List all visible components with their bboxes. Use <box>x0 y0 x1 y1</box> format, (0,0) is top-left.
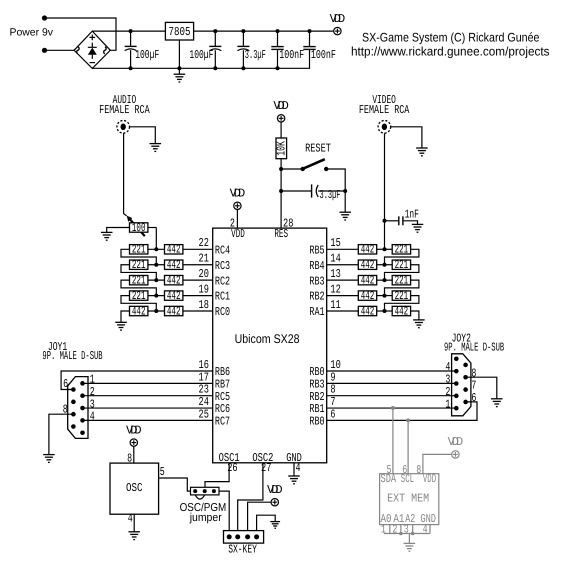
svg-text:4: 4 <box>90 410 95 424</box>
svg-text:6: 6 <box>63 377 68 391</box>
JOY1 pin dot right col 3 <box>80 406 85 411</box>
junction switch-gnd/C6 <box>343 189 347 193</box>
junction gray SDA on RB1 <box>391 406 395 410</box>
connector J5 SX-KEY body <box>224 531 264 544</box>
svg-text:EXT MEM: EXT MEM <box>387 491 429 505</box>
wire ladder chain RB2 right S-link <box>385 296 419 311</box>
wire JOY1 pin8 to ground <box>49 414 74 454</box>
ground under 7805 <box>174 74 186 82</box>
svg-text:RB0: RB0 <box>309 415 324 429</box>
junction gnd/C4 <box>276 66 280 70</box>
resistor RRB4b 221 <box>392 258 410 272</box>
wire U1 GND pin to ground <box>293 463 295 476</box>
ground audio pot <box>101 232 113 240</box>
jumper JP1 OSC/PGM body <box>191 487 220 495</box>
JOY2 pin dot right col 6 <box>463 363 468 368</box>
ground U1 <box>288 476 300 484</box>
wire C3 bottom <box>242 50 244 68</box>
wire U1 pin 13 to RB3 resistor <box>327 279 359 281</box>
ground EXT MEM <box>404 543 416 551</box>
svg-text:9P. MALE D-SUB: 9P. MALE D-SUB <box>444 340 504 354</box>
junction gray SCL on RB0 <box>406 418 410 422</box>
JOY2 pin dot left col 2 <box>454 369 459 374</box>
wire pot right to chain <box>148 227 156 229</box>
switch S1 left contact <box>301 167 305 171</box>
wire switch to ground <box>326 169 345 212</box>
resistor RRB3a 442 <box>358 273 376 287</box>
resistor RRB5b 221 <box>392 243 410 257</box>
SX-KEY pin3 <box>245 534 250 539</box>
svg-text:Power 9v: Power 9v <box>10 27 54 39</box>
svg-text:9P. MALE D-SUB: 9P. MALE D-SUB <box>42 349 102 363</box>
JOY2 pin dot right col 9 <box>463 400 468 405</box>
wire RC4 to U1 pin 22 <box>183 248 213 250</box>
wire audio RCA center down <box>124 133 127 216</box>
wire power- to bridge AC2 <box>47 49 75 51</box>
node RC4 chain junction <box>154 247 158 251</box>
ground JOY1 <box>43 455 55 463</box>
capacitor C6 3.3uF horizontal <box>312 184 319 197</box>
JOY1 pin dot left col 7 <box>71 400 76 405</box>
resistor RRC3a 221 <box>130 258 148 272</box>
wire OSC pin5 to jumper pin1 <box>159 478 191 491</box>
svg-text:SX-KEY: SX-KEY <box>228 542 257 556</box>
resistor RRC2b 442 <box>165 273 183 287</box>
VDD symbol EXT MEM <box>448 435 464 458</box>
wire RES node to C6 <box>281 190 312 192</box>
ground SX-KEY <box>270 522 280 529</box>
wire VDD to OSC pin8 <box>133 446 135 463</box>
JOY1 pin dot left col 9 <box>71 424 76 429</box>
wire node RC1 junction <box>148 295 165 297</box>
svg-text:4: 4 <box>423 523 428 537</box>
wire gray SCL from RB0 <box>407 420 409 473</box>
svg-text:10K: 10K <box>274 141 288 156</box>
wire gray VDD to EXTMEM pin8 <box>423 454 452 473</box>
JOY1 pin dot left col 8 <box>71 412 76 417</box>
wire U1 RB0 to JOY2 pin6 <box>327 402 477 421</box>
svg-text:RC2: RC2 <box>215 274 230 288</box>
svg-text:VDD: VDD <box>330 12 346 26</box>
wire EXTMEM bus to ground <box>408 534 410 544</box>
connector JOY1 D-SUB body <box>68 377 88 439</box>
node RC3 chain junction <box>154 263 158 267</box>
svg-text:RESET: RESET <box>305 141 331 155</box>
wire node RC2 junction <box>148 279 165 281</box>
wire U1 pin 12 to RB2 resistor <box>327 295 359 297</box>
resistor R1 10K vertical <box>274 138 288 159</box>
node RB4 chain junction <box>383 263 387 267</box>
junction 5V/C2 <box>213 29 217 33</box>
svg-text:SDA: SDA <box>381 472 397 486</box>
junction 5V/C4 <box>276 29 280 33</box>
wire gray SDA from RB1 <box>392 408 394 474</box>
wire node RC0 junction <box>148 310 165 312</box>
svg-text:19: 19 <box>199 282 209 296</box>
svg-text:RC0: RC0 <box>215 305 230 319</box>
svg-text:SX-Game System (C) Rickard Gun: SX-Game System (C) Rickard Gunée <box>362 30 540 44</box>
svg-text:20: 20 <box>199 267 209 281</box>
wire jumper pin3 to SXKEY pin1 <box>219 491 229 530</box>
potentiometer R2 100 <box>130 221 148 235</box>
ground reset switch <box>339 212 351 220</box>
wire node RC3 junction <box>148 264 165 266</box>
wire ladder chain RC3 left U-link <box>121 265 156 280</box>
resistor RRC3b 442 <box>165 258 183 272</box>
junction A1 bus <box>399 532 403 536</box>
wire JOY1 pin1 to U1 RB7 <box>83 382 213 384</box>
wire 5V rail 7805 output to VDD <box>194 30 334 32</box>
capacitor C2 100uF <box>209 46 221 50</box>
svg-text:1nF: 1nF <box>405 207 419 221</box>
junction gnd/C3 <box>241 66 245 70</box>
svg-text:4: 4 <box>296 461 301 475</box>
power input terminal + node <box>42 15 47 20</box>
potentiometer R2 wiper arrow line <box>130 219 145 236</box>
wire C6 to ground leg <box>318 190 345 192</box>
svg-text:FEMALE RCA: FEMALE RCA <box>99 103 150 117</box>
svg-text:3: 3 <box>404 523 409 537</box>
wire C5 top <box>309 31 311 46</box>
junction gnd/C2 <box>213 66 217 70</box>
wire video node to C7 <box>385 220 399 222</box>
wire RB6 row to JOY1 pin6 <box>61 371 213 390</box>
svg-text:Ubicom SX28: Ubicom SX28 <box>235 332 300 346</box>
svg-text:442: 442 <box>167 258 181 272</box>
svg-text:221: 221 <box>132 258 146 272</box>
resistor RRC4a 221 <box>130 243 148 257</box>
bridge B1 AC squiggle right <box>104 47 106 54</box>
jumper JP1 pin3 <box>212 489 216 493</box>
wire OSC2 to SXKEY pin2 <box>238 463 263 531</box>
svg-text:5: 5 <box>160 465 165 479</box>
wire U1 RB2 to JOY2 pin2 <box>327 395 457 397</box>
wire VDD to R10K <box>280 122 282 138</box>
node RB5 chain junction <box>383 247 387 251</box>
svg-text:RC4: RC4 <box>215 243 230 257</box>
potentiometer R2 wiper arrowhead <box>127 216 133 222</box>
junction video/C7 <box>383 219 387 223</box>
JOY1 pin dot left col 6 <box>71 387 76 392</box>
wire node RB3 junction <box>377 279 392 281</box>
resistor RRB5a 442 <box>358 243 376 257</box>
junction +9V/C1 <box>129 29 133 33</box>
svg-text:RA1: RA1 <box>309 305 324 319</box>
ground DAC ladder right <box>413 320 425 328</box>
wire RC0 to U1 pin 18 <box>183 310 213 312</box>
JOY2 pin dot left col 1 <box>454 357 459 362</box>
svg-text:442: 442 <box>167 289 181 303</box>
wire C4 top <box>277 31 279 46</box>
node RC2 chain junction <box>154 278 158 282</box>
wire U1 RB1 to JOY2 pin1 <box>327 407 457 409</box>
wire pin2 VDD <box>236 210 238 229</box>
wire ladder chain RC1 left U-link <box>121 296 156 311</box>
svg-text:2: 2 <box>392 523 397 537</box>
capacitor C5 100nF <box>303 47 315 50</box>
wire OSC1 to jumper pin2 <box>205 463 229 488</box>
junction gnd/7805 <box>177 66 181 70</box>
resistor RRB3b 221 <box>392 273 410 287</box>
bridge B1 internal diode <box>88 43 97 59</box>
wire ladder chain RC4 left U-link <box>121 249 156 264</box>
wire ladder chain bottom to ground <box>121 311 130 322</box>
node RC1 chain junction <box>154 294 158 298</box>
svg-text:12: 12 <box>330 282 340 296</box>
wire EXTMEM ground bus <box>384 533 430 535</box>
svg-text:6: 6 <box>330 407 335 421</box>
svg-text:221: 221 <box>132 289 146 303</box>
wire RC2 to U1 pin 20 <box>183 279 213 281</box>
switch S1 lever <box>303 159 325 168</box>
JOY2 pin dot left col 3 <box>454 381 459 386</box>
wire C2 bottom <box>214 50 216 68</box>
svg-text:14: 14 <box>330 252 340 266</box>
power input terminal - node <box>42 48 47 53</box>
svg-text:25: 25 <box>199 407 209 421</box>
VDD symbol SX-KEY <box>267 483 283 506</box>
wire EXTMEM pin3 stub <box>412 525 414 534</box>
connector J4 video female RCA <box>378 121 391 134</box>
svg-text:100µF: 100µF <box>135 48 159 62</box>
wire node RB4 junction <box>377 264 392 266</box>
svg-text:442: 442 <box>361 289 375 303</box>
capacitor C1 100uF <box>125 46 137 50</box>
svg-text:8: 8 <box>416 463 421 477</box>
wire U1 pin 11 to RA1 resistor <box>327 310 359 312</box>
wire right chain bottom to ground <box>411 311 419 319</box>
VDD symbol pin2 <box>230 187 246 210</box>
JOY1 pin dot right col 4 <box>80 418 85 423</box>
svg-text:6: 6 <box>471 391 476 405</box>
node RB2 chain junction <box>383 294 387 298</box>
JOY1 pin dot right col 2 <box>80 393 85 398</box>
op-chip U1 Ubicom SX28 body <box>213 228 327 463</box>
svg-text:VDD: VDD <box>126 423 142 437</box>
svg-text:3.3µF: 3.3µF <box>245 48 266 62</box>
wire node RB5 junction <box>377 248 392 250</box>
VDD symbol reset pullup <box>273 99 289 122</box>
junction 5V/C3 <box>241 29 245 33</box>
svg-text:11: 11 <box>330 298 340 312</box>
svg-text:3.3µF: 3.3µF <box>320 188 341 202</box>
svg-text:22: 22 <box>199 236 209 250</box>
svg-text:442: 442 <box>361 273 375 287</box>
SX-KEY pin1 <box>227 534 232 539</box>
wire RC1 to U1 pin 19 <box>183 295 213 297</box>
junction A2 bus <box>411 532 415 536</box>
svg-text:RC7: RC7 <box>215 415 230 429</box>
JOY2 pin dot right col 8 <box>463 387 468 392</box>
wire EXTMEM pin4 stub <box>429 525 431 534</box>
wire ground rail <box>92 49 309 68</box>
node RC0 chain junction <box>154 309 158 313</box>
svg-text:VDD: VDD <box>423 472 436 486</box>
wire JOY1 pin4 to U1 RC7 <box>83 419 213 421</box>
svg-text:442: 442 <box>361 258 375 272</box>
wire RES node to switch <box>281 168 303 170</box>
regulator U2 7805 <box>165 22 193 40</box>
svg-text:SCL: SCL <box>401 472 414 486</box>
svg-text:VDD: VDD <box>448 435 464 449</box>
resistor RRC4b 442 <box>165 243 183 257</box>
wire EXTMEM pin2 stub <box>400 525 402 534</box>
capacitor C3 3.3uF <box>237 46 249 50</box>
svg-text:RC1: RC1 <box>215 290 230 304</box>
svg-text:VDD: VDD <box>231 227 245 241</box>
svg-text:VDD: VDD <box>230 187 246 201</box>
wire C3 top <box>242 31 244 46</box>
svg-text:100: 100 <box>132 221 146 235</box>
wire JOY1 pin2 to U1 RC5 <box>83 395 213 397</box>
resistor RRB4a 442 <box>358 258 376 272</box>
node RB3 chain junction <box>383 278 387 282</box>
svg-text:221: 221 <box>132 273 146 287</box>
wire node RB2 junction <box>377 295 392 297</box>
wire ladder chain RB5 right S-link <box>385 249 419 264</box>
JOY2 pin dot right col 7 <box>463 375 468 380</box>
resistor RRB2b 221 <box>392 289 410 303</box>
connector JOY2 D-SUB body <box>452 354 471 416</box>
wire ladder chain RB4 right S-link <box>385 265 419 280</box>
svg-text:221: 221 <box>395 258 409 272</box>
VDD symbol power output <box>330 12 346 35</box>
svg-text:RES: RES <box>274 227 288 241</box>
wire C7 to ground <box>403 221 418 224</box>
JOY1 pin dot right col 1 <box>80 381 85 386</box>
jumper JP1 pin1 <box>193 489 197 493</box>
svg-text:100nF: 100nF <box>311 48 336 62</box>
wire EXTMEM pin1 stub <box>389 525 391 534</box>
resistor RRB2a 442 <box>358 289 376 303</box>
bridge B1 AC squiggle left <box>77 47 79 54</box>
junction RES/switch <box>279 167 283 171</box>
VDD symbol OSC <box>126 423 142 446</box>
ground video filter <box>412 224 424 232</box>
svg-text:1: 1 <box>381 523 386 537</box>
bridge B1 minus mark <box>90 62 96 64</box>
wire U1 RB3 to JOY2 pin3 <box>327 382 457 384</box>
wire JOY2 pin8 to ground <box>466 377 497 398</box>
svg-text:4: 4 <box>128 512 133 526</box>
wire C4 bottom <box>277 49 279 68</box>
memory U3 EXT MEM body <box>380 474 439 525</box>
JOY2 pin dot left col 5 <box>454 406 459 411</box>
wire SXKEY pin4 to ground <box>257 515 276 530</box>
svg-text:100nF: 100nF <box>279 48 304 62</box>
junction gnd/C1 <box>129 66 133 70</box>
svg-text:442: 442 <box>361 243 375 257</box>
jumper JP1 pin2 <box>203 489 207 493</box>
svg-text:7805: 7805 <box>169 25 191 39</box>
junction 5V/C5 <box>308 29 312 33</box>
wire chain top to pot <box>155 228 157 250</box>
svg-text:221: 221 <box>395 243 409 257</box>
wire R10K to RES node <box>280 159 282 228</box>
svg-text:15: 15 <box>330 236 340 250</box>
svg-text:RC3: RC3 <box>215 259 230 273</box>
resistor RRC0a 442 <box>130 304 148 318</box>
SX-KEY pin4 <box>254 534 259 539</box>
svg-text:442: 442 <box>167 304 181 318</box>
wire power+ to bridge AC1 <box>47 18 117 50</box>
resistor RRA1a 442 <box>358 304 376 318</box>
wire U1 pin 15 to RB5 resistor <box>327 248 359 250</box>
svg-text:RB2: RB2 <box>309 290 324 304</box>
svg-text:442: 442 <box>132 304 146 318</box>
svg-text:13: 13 <box>330 267 340 281</box>
resistor RRC0b 442 <box>165 304 183 318</box>
SX-KEY pin2 <box>235 534 240 539</box>
svg-text:442: 442 <box>395 304 409 318</box>
svg-text:221: 221 <box>132 243 146 257</box>
svg-text:OSC: OSC <box>126 481 143 495</box>
resistor RRC2a 221 <box>130 273 148 287</box>
ground JOY2 <box>491 399 503 407</box>
wire +9V rail bridge to 7805 input <box>92 30 165 32</box>
svg-text:FEMALE RCA: FEMALE RCA <box>359 103 410 117</box>
switch S1 right contact <box>324 167 328 171</box>
svg-text:RB4: RB4 <box>309 259 324 273</box>
bridge rectifier B1 body <box>74 31 110 68</box>
wire video RCA center down <box>384 133 386 249</box>
wire 7805 GND pin <box>178 40 180 74</box>
svg-text:18: 18 <box>199 298 209 312</box>
svg-text:http://www.rickard.gunee.com/p: http://www.rickard.gunee.com/projects <box>351 45 550 59</box>
wire C1 bottom <box>130 50 132 68</box>
svg-text:442: 442 <box>167 273 181 287</box>
ground DAC ladder left <box>115 322 127 330</box>
ground OSC <box>128 532 140 540</box>
capacitor C7 1nF <box>399 216 403 225</box>
wire node RC4 junction <box>148 248 165 250</box>
wire RC3 to U1 pin 21 <box>183 264 213 266</box>
wire audio RCA shield to ground <box>130 127 156 143</box>
wire U1 RB0 to JOY2 pin4 <box>327 370 457 372</box>
svg-text:442: 442 <box>361 304 375 318</box>
svg-text:1: 1 <box>445 397 450 411</box>
jumper JP1 shunt arc <box>195 495 205 499</box>
svg-text:VDD: VDD <box>273 99 289 113</box>
JOY2 pin dot left col 4 <box>454 394 459 399</box>
wire video RCA shield to ground <box>391 127 422 148</box>
connector J3 audio female RCA <box>117 121 130 134</box>
resistor RRC1a 221 <box>130 289 148 303</box>
svg-text:VDD: VDD <box>267 483 283 497</box>
resistor RRC1b 442 <box>165 289 183 303</box>
wire OSC pin4 to ground <box>133 514 135 531</box>
capacitor C4 100nF <box>271 47 283 50</box>
svg-text:221: 221 <box>395 289 409 303</box>
svg-text:221: 221 <box>395 273 409 287</box>
wire U1 pin 14 to RB4 resistor <box>327 264 359 266</box>
wire C1 top <box>130 31 132 46</box>
wire C2 top <box>214 31 216 46</box>
node RA1 chain junction <box>383 309 387 313</box>
ground video RCA <box>416 148 428 156</box>
wire pot left to ground <box>107 228 130 233</box>
wire SXKEY pin3 to VDD <box>248 502 271 530</box>
JOY1 pin dot right col 5 <box>80 430 85 435</box>
ground audio RCA <box>150 144 162 152</box>
wire ladder chain RC2 left U-link <box>121 280 156 295</box>
svg-text:RB3: RB3 <box>309 274 324 288</box>
wire JOY1 pin3 to U1 RC6 <box>83 407 213 409</box>
svg-text:100µF: 100µF <box>189 48 213 62</box>
bridge B1 plus mark <box>90 35 96 41</box>
junction RES/C6 <box>279 189 283 193</box>
svg-text:jumper: jumper <box>189 512 222 524</box>
